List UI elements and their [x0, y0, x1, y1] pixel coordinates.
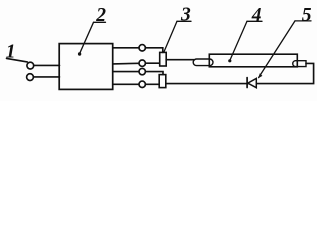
diode 5 triangle: [248, 78, 256, 87]
socket 3b: [159, 75, 166, 88]
left electrode pill: [193, 59, 213, 66]
arrowhead of leader 5: [258, 73, 262, 78]
wire from O2 to socket 3a: [145, 62, 159, 64]
wire from O4 to socket 3b: [145, 83, 159, 85]
underline label 2: [94, 21, 106, 23]
terminal circle O3: [139, 68, 145, 74]
wire from O1 to socket 3a: [145, 48, 162, 53]
output stub 2: [113, 62, 139, 65]
wire from O3 to socket 3b: [145, 72, 163, 75]
leader line for label 1: [7, 58, 28, 62]
leader line label 3: [164, 21, 177, 52]
wire socket 3a to tube electrode: [166, 59, 194, 61]
terminal circle O4: [139, 81, 145, 87]
bottom return wire with right wrap: [166, 63, 314, 83]
input terminal circle top: [27, 62, 34, 69]
wire input top: [34, 64, 60, 66]
terminal circle O2: [139, 60, 145, 66]
underline label 5: [295, 20, 311, 22]
svg-text:5: 5: [302, 5, 312, 26]
leader line label 2: [80, 22, 94, 53]
underline label 3: [177, 20, 191, 22]
diode 5 cathode bar: [246, 78, 248, 88]
input terminal circle bottom: [27, 74, 34, 81]
underline label 4: [247, 20, 262, 22]
terminal circle O1: [139, 45, 145, 51]
output stub 1: [113, 47, 139, 49]
right electrode pill: [293, 61, 306, 67]
output stub 4: [113, 83, 139, 85]
leader dot 4: [228, 59, 231, 62]
leader dot 2: [78, 52, 81, 55]
socket 3a: [160, 52, 167, 66]
svg-text:4: 4: [251, 5, 262, 26]
ballast box 2: [59, 44, 112, 90]
output stub 3: [113, 71, 139, 73]
svg-text:3: 3: [180, 4, 191, 25]
tube 4 envelope: [209, 54, 297, 67]
leader line label 4: [230, 21, 247, 59]
wire input bottom: [34, 76, 60, 78]
leader line label 5 with arrowhead: [259, 21, 295, 78]
